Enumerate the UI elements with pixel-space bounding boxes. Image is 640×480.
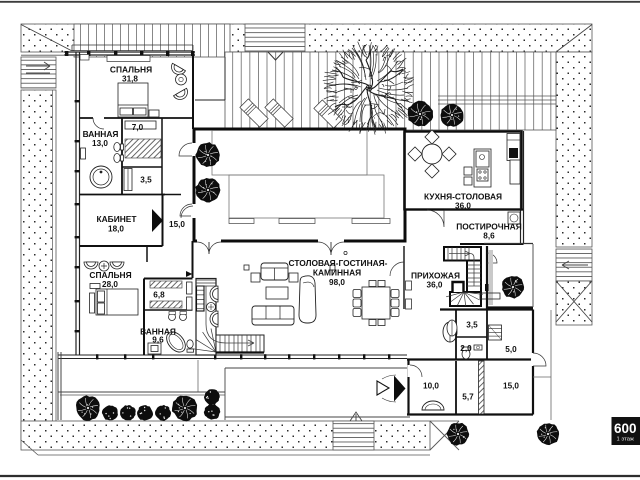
svg-text:3,5: 3,5: [466, 321, 478, 330]
svg-text:СПАЛЬНЯ: СПАЛЬНЯ: [89, 270, 131, 280]
svg-text:5,0: 5,0: [505, 345, 517, 354]
svg-text:15,0: 15,0: [169, 220, 185, 229]
svg-text:18,0: 18,0: [108, 225, 124, 234]
svg-text:ВАННАЯ: ВАННАЯ: [83, 129, 119, 139]
svg-text:8,6: 8,6: [483, 232, 495, 241]
svg-text:15,0: 15,0: [503, 382, 519, 391]
svg-text:31,8: 31,8: [122, 75, 138, 84]
svg-text:ПРИХОЖАЯ: ПРИХОЖАЯ: [411, 271, 460, 281]
svg-text:КАМИННАЯ: КАМИННАЯ: [313, 268, 361, 278]
svg-text:КУХНЯ-СТОЛОВАЯ: КУХНЯ-СТОЛОВАЯ: [424, 192, 502, 202]
svg-text:КАБИНЕТ: КАБИНЕТ: [97, 214, 138, 224]
svg-text:7,0: 7,0: [132, 123, 144, 132]
svg-text:36,0: 36,0: [427, 281, 443, 290]
svg-text:ПОСТИРОЧНАЯ: ПОСТИРОЧНАЯ: [456, 222, 522, 232]
svg-text:1 этаж: 1 этаж: [617, 437, 634, 443]
svg-text:98,0: 98,0: [329, 278, 345, 287]
svg-text:2,0: 2,0: [460, 344, 472, 353]
svg-text:6,8: 6,8: [153, 291, 165, 300]
svg-text:5,7: 5,7: [462, 393, 474, 402]
svg-text:3,5: 3,5: [140, 176, 152, 185]
svg-text:10,0: 10,0: [423, 382, 439, 391]
svg-text:28,0: 28,0: [102, 280, 118, 289]
svg-text:36,0: 36,0: [455, 202, 471, 211]
svg-text:13,0: 13,0: [92, 139, 108, 148]
svg-text:600: 600: [614, 421, 637, 436]
svg-text:СТОЛОВАЯ-ГОСТИНАЯ-: СТОЛОВАЯ-ГОСТИНАЯ-: [289, 258, 388, 268]
svg-text:СПАЛЬНЯ: СПАЛЬНЯ: [110, 65, 152, 75]
svg-text:9,6: 9,6: [152, 336, 164, 345]
